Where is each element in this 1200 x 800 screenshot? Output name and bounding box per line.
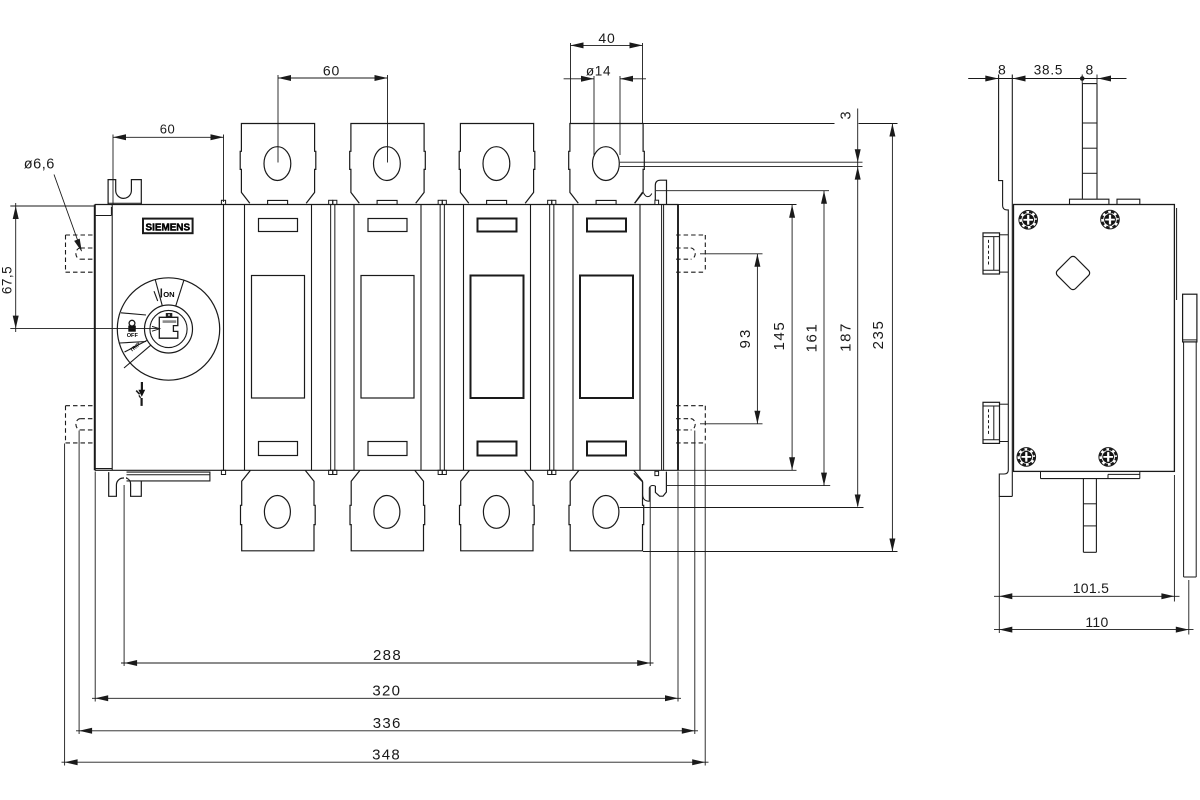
top-right hook bracket <box>635 192 643 203</box>
right side cover flap <box>1183 294 1197 342</box>
svg-text:288: 288 <box>373 647 402 664</box>
Siemens logo <box>143 219 193 234</box>
pole separator at 551.75 <box>549 205 551 471</box>
svg-text:ø6,6: ø6,6 <box>24 157 55 173</box>
bottom terminal tab 4 <box>569 470 644 550</box>
svg-text:60: 60 <box>323 63 340 79</box>
rotary handle outer circle <box>117 278 219 380</box>
square drive opening <box>1055 255 1091 291</box>
top terminal tab 2 <box>350 124 426 204</box>
svg-text:40: 40 <box>598 30 615 46</box>
dimension 145 <box>679 204 797 206</box>
DIN clip lower <box>983 402 1000 443</box>
DIN clip upper <box>983 233 1000 274</box>
pole module 1 <box>244 205 246 471</box>
bottom terminal tab 2 <box>350 470 425 550</box>
top terminal tab 1 <box>240 124 316 204</box>
trip indicator arrow <box>141 382 143 390</box>
dashed side bracket right-bottom <box>704 406 706 443</box>
dashed side bracket left-bottom <box>65 406 67 443</box>
svg-text:OFF: OFF <box>127 333 139 339</box>
svg-text:93: 93 <box>737 327 754 348</box>
top-left mounting bracket <box>108 180 141 205</box>
bottom-right hook bracket <box>634 473 643 482</box>
dimension 8 / 38.5 / 8 <box>968 78 1126 80</box>
dimension 101.5 <box>998 496 1000 633</box>
right endplate <box>661 205 663 471</box>
svg-text:SIEMENS: SIEMENS <box>146 222 191 233</box>
dimension 288 <box>123 485 125 666</box>
svg-text:235: 235 <box>870 320 887 350</box>
svg-text:320: 320 <box>372 682 401 699</box>
dimension 60 (left) <box>112 135 114 205</box>
bottom-left endplate step plate <box>127 472 210 481</box>
svg-text:145: 145 <box>771 321 788 351</box>
svg-text:8: 8 <box>998 61 1006 77</box>
ON sector <box>155 280 162 306</box>
switch body bottom edge <box>95 469 679 471</box>
dimension diam 14 <box>593 76 595 155</box>
left endplate <box>94 205 96 471</box>
padlock icon <box>129 320 135 326</box>
dimension 235 <box>643 551 898 553</box>
svg-text:ø14: ø14 <box>586 63 611 78</box>
pole module 3 <box>463 205 465 471</box>
dimension 93 <box>700 253 763 255</box>
svg-text:38.5: 38.5 <box>1034 62 1063 77</box>
tripped sector <box>125 341 147 353</box>
top terminal tab 3 <box>459 124 535 204</box>
svg-text:67,5: 67,5 <box>0 266 15 294</box>
bottom terminal tab 3 <box>460 470 535 550</box>
dashed side bracket left-top <box>65 235 67 272</box>
svg-text:336: 336 <box>373 715 402 732</box>
top terminal tab 4 <box>569 124 645 204</box>
side view mounting plate <box>999 75 1013 497</box>
pole module 2 <box>353 205 355 471</box>
bottom base steps <box>1040 471 1042 478</box>
screw at 1028.2,219.8 <box>1023 214 1034 225</box>
bottom-left mounting bracket <box>109 472 124 496</box>
screw at 1026.3,456.9 <box>1021 452 1032 463</box>
handle shaft (extended) <box>1081 84 1083 199</box>
dimension 336 <box>78 431 80 735</box>
dashed side bracket right-top <box>704 235 706 272</box>
svg-text:110: 110 <box>1085 614 1108 630</box>
dimension 67,5 <box>10 205 94 207</box>
dimension 187 <box>620 507 864 509</box>
dimension 110 <box>1188 580 1190 635</box>
svg-text:187: 187 <box>837 322 854 352</box>
screw at 1108.2,456.9 <box>1103 452 1114 463</box>
dimension 348 <box>64 444 66 766</box>
svg-text:161: 161 <box>804 323 821 353</box>
dimension 3 (terminal thickness) <box>643 123 835 125</box>
side view body <box>1014 205 1175 472</box>
pole separator at 332.75 <box>330 205 332 471</box>
dimension 161 <box>656 190 829 192</box>
svg-text:3: 3 <box>839 111 855 119</box>
handle center square shaft <box>159 317 178 338</box>
svg-text:8: 8 <box>1086 61 1094 77</box>
pole module 4 <box>572 205 574 471</box>
OFF sector <box>121 313 146 315</box>
right side strip <box>1183 342 1185 577</box>
switch body top edge <box>95 204 679 206</box>
screw at 1110.0,219.6 <box>1105 214 1116 225</box>
dimension 320 <box>94 472 96 702</box>
bottom terminal tab 1 <box>241 470 316 550</box>
rotary handle bezel rings <box>145 305 193 353</box>
dimension 40 <box>570 43 572 124</box>
svg-text:101.5: 101.5 <box>1073 580 1110 596</box>
pole separator at 442.25 <box>439 205 441 471</box>
svg-text:60: 60 <box>160 122 175 137</box>
svg-text:ON: ON <box>163 290 174 299</box>
dimension 60 (pole pitch) <box>277 75 279 163</box>
handle section boundary <box>223 205 225 471</box>
bottom terminal shaft <box>1082 479 1084 553</box>
side body top small tab <box>1117 199 1140 204</box>
svg-text:348: 348 <box>372 746 401 763</box>
